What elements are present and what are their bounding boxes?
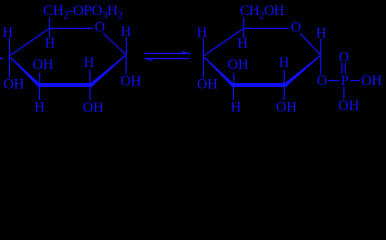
wire P-OH bond right: [350, 80, 359, 82]
wire C4-C5 bond left: [9, 29, 49, 57]
wire OH-C3 bond left: [39, 73, 41, 84]
wire C4-C5 bond right: [203, 29, 243, 57]
svg-text:H: H: [231, 99, 241, 115]
svg-text:H: H: [34, 100, 44, 116]
svg-text:OH: OH: [228, 57, 249, 73]
wire O-P bond: [328, 80, 339, 82]
wire H-C4-OH vertical bond left: [9, 38, 11, 78]
wire C2-OH bond right: [283, 87, 285, 101]
svg-text:H: H: [279, 55, 289, 71]
wire wedge bond C1-C2 left ring: [90, 54, 127, 86]
svg-text:OH: OH: [338, 98, 359, 114]
wire C5-O top edge left ring: [50, 27, 93, 29]
wire C1-OH bond left: [125, 56, 127, 75]
svg-text:O: O: [317, 73, 327, 89]
wire wedge bond C1-C2 right ring: [284, 55, 321, 87]
wire equilibrium arrow bottom barb: [142, 58, 153, 62]
svg-text:H: H: [84, 55, 94, 71]
wire C5-O top edge right ring: [244, 27, 289, 29]
wire H-C2 bond right: [283, 70, 285, 84]
svg-text:OH: OH: [120, 74, 141, 90]
wire equilibrium arrow bottom line: [145, 58, 190, 60]
svg-text:OH: OH: [3, 77, 24, 93]
svg-text:H: H: [197, 25, 207, 41]
wire P=O double bond line 1: [341, 63, 343, 74]
svg-text:H: H: [2, 25, 12, 41]
svg-text:O: O: [339, 49, 349, 65]
wire C6-C5-H vertical bond right: [243, 17, 245, 38]
svg-text:OH: OH: [33, 57, 54, 73]
svg-text:H: H: [237, 36, 247, 52]
wire O-C1 bond left: [103, 33, 126, 55]
wire P-OH bond down: [343, 87, 345, 100]
svg-text:OH: OH: [197, 77, 218, 93]
wire C6-C5-H vertical bond left: [49, 18, 51, 39]
wire thick bottom edge C3-C2 right ring: [232, 83, 287, 87]
wire P=O double bond line 2: [344, 63, 346, 74]
svg-text:OH: OH: [361, 73, 382, 89]
svg-text:H: H: [45, 36, 55, 52]
wire C3-H bond right: [233, 87, 235, 101]
wire equilibrium arrow top line: [144, 53, 190, 55]
wire OH-C3 bond right: [233, 73, 235, 84]
wire C3-H bond left: [39, 87, 41, 101]
svg-text:CH2-OPO3H2: CH2-OPO3H2: [43, 2, 123, 22]
wire thick bottom edge C3-C2 left ring: [38, 83, 93, 87]
wire H-C1 bond left: [125, 37, 127, 54]
wire C2-OH bond left: [89, 87, 91, 101]
svg-text:OH: OH: [83, 100, 104, 116]
wire H-C1 bond right: [320, 39, 322, 55]
svg-text:P: P: [341, 73, 349, 89]
svg-text:O: O: [291, 19, 301, 35]
wire O-C1 bond right: [300, 33, 321, 55]
wire wedge bond C4-C3 left ring: [10, 57, 40, 86]
wire wedge bond C4-C3 right ring: [204, 57, 234, 86]
wire C1-O ester bond right: [320, 55, 322, 75]
svg-text:OH: OH: [276, 100, 297, 116]
wire edge fragment far left: [0, 58, 3, 60]
wire H-C4-OH vertical bond right: [203, 38, 205, 78]
wire equilibrium arrow top barb: [181, 51, 191, 55]
wire H-C2 bond left: [89, 70, 91, 84]
